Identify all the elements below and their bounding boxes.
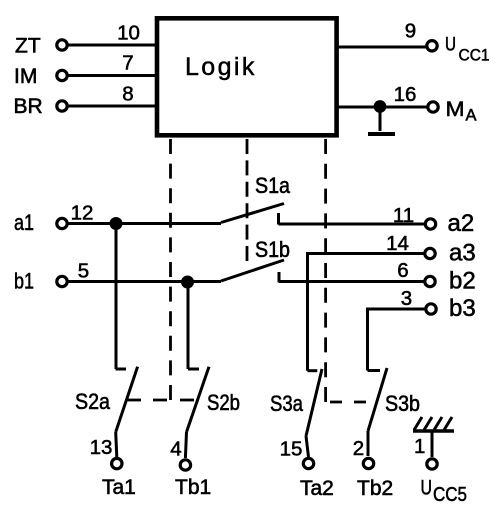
svg-text:CC1: CC1 xyxy=(459,46,490,65)
svg-text:U: U xyxy=(421,477,433,500)
svg-text:ZT: ZT xyxy=(15,35,41,58)
svg-text:a1: a1 xyxy=(14,210,34,235)
svg-text:9: 9 xyxy=(405,20,416,43)
svg-text:15: 15 xyxy=(280,438,303,461)
svg-text:b3: b3 xyxy=(449,295,476,322)
svg-text:Ta1: Ta1 xyxy=(102,476,136,499)
svg-text:2: 2 xyxy=(353,437,364,460)
svg-text:BR: BR xyxy=(14,95,43,118)
svg-text:S1a: S1a xyxy=(255,173,291,198)
svg-text:IM: IM xyxy=(14,65,37,88)
svg-text:5: 5 xyxy=(78,260,89,283)
svg-text:S1b: S1b xyxy=(255,237,290,262)
svg-text:6: 6 xyxy=(397,259,408,282)
svg-text:b1: b1 xyxy=(14,269,34,294)
svg-text:S3a: S3a xyxy=(270,391,304,416)
svg-text:S2a: S2a xyxy=(75,389,111,414)
svg-text:S3b: S3b xyxy=(385,391,420,416)
svg-text:10: 10 xyxy=(117,22,140,45)
svg-text:a2: a2 xyxy=(448,210,475,237)
svg-text:Logik: Logik xyxy=(185,53,257,81)
svg-text:a3: a3 xyxy=(449,240,476,267)
svg-text:b2: b2 xyxy=(449,268,476,295)
svg-text:8: 8 xyxy=(122,83,133,106)
svg-text:Tb1: Tb1 xyxy=(175,476,211,499)
svg-text:4: 4 xyxy=(170,438,181,461)
svg-text:3: 3 xyxy=(401,287,412,310)
svg-text:Ta2: Ta2 xyxy=(300,477,334,500)
svg-text:S2b: S2b xyxy=(207,390,240,415)
svg-text:13: 13 xyxy=(90,436,113,459)
svg-text:CC5: CC5 xyxy=(433,484,467,506)
svg-text:16: 16 xyxy=(394,83,417,106)
svg-text:1: 1 xyxy=(414,435,425,458)
svg-text:12: 12 xyxy=(71,202,94,225)
svg-text:14: 14 xyxy=(386,232,409,255)
svg-text:M: M xyxy=(446,98,465,121)
svg-text:A: A xyxy=(466,107,477,125)
svg-text:U: U xyxy=(445,35,456,56)
svg-text:Tb2: Tb2 xyxy=(357,477,393,500)
svg-text:11: 11 xyxy=(393,204,414,227)
svg-text:7: 7 xyxy=(122,52,133,75)
